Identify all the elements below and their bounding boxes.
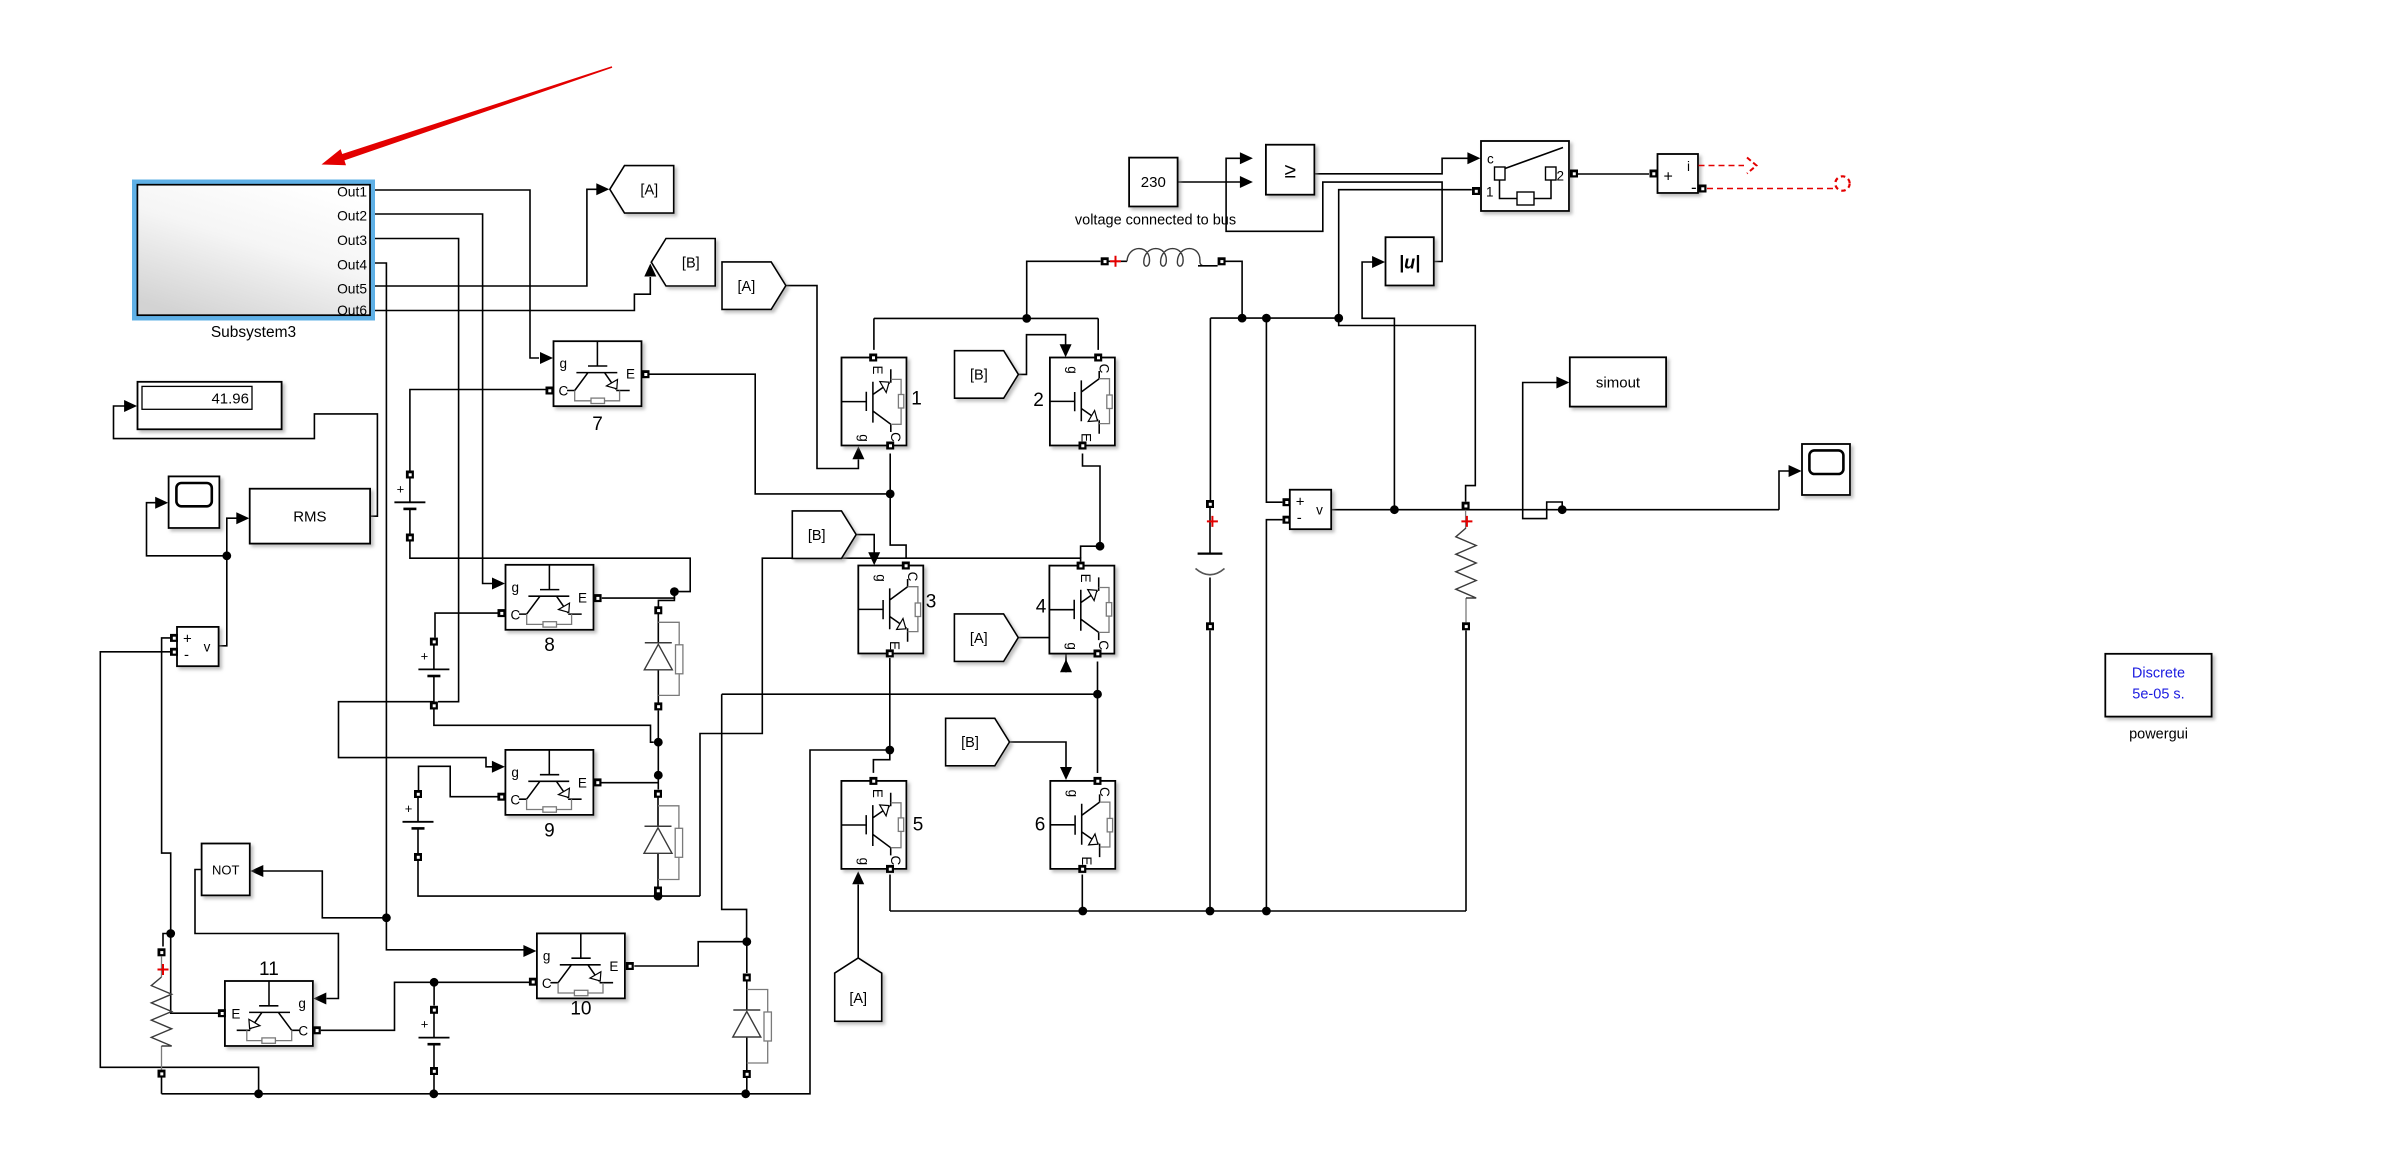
wire inductor L1 right terminal to DC bus [1222, 261, 1243, 318]
wire switch output to current measurement input [1578, 173, 1649, 175]
svg-text:C: C [510, 792, 520, 807]
annotation red arrow [322, 66, 613, 165]
svg-text:1: 1 [1486, 185, 1494, 200]
svg-text:+: + [183, 631, 192, 648]
svg-text:powergui: powergui [2129, 727, 2188, 743]
svg-text:[A]: [A] [970, 631, 988, 647]
svg-text:E: E [870, 789, 885, 798]
wire bridge output bus [874, 318, 1098, 350]
svg-text:C: C [542, 976, 552, 991]
svg-text:C: C [559, 384, 569, 399]
svg-text:|u|: |u| [1399, 253, 1420, 273]
svg-text:Out3: Out3 [337, 233, 367, 248]
wire constant 230 to relational operator bottom input [1178, 181, 1241, 183]
svg-text:Discrete: Discrete [2132, 666, 2185, 682]
wire From B to gate of IGBT 2 [1018, 335, 1065, 375]
DC source B2 [433, 642, 435, 706]
wire Abs output to relational operator top input [1226, 158, 1442, 261]
wire collector of IGBT 11 to node [321, 982, 434, 1030]
svg-text:Out4: Out4 [337, 257, 367, 272]
svg-text:7: 7 [592, 414, 603, 435]
wire C4 C6 feed line to diode D3 node [722, 694, 1098, 938]
wire emitter of IGBT 2 jog to node [1083, 454, 1101, 547]
wire emitter of IGBT 6 to mid rail [1081, 875, 1083, 912]
block NOT [202, 844, 250, 896]
wire Out3 down to battery B2 minus [370, 239, 459, 702]
IGBT 2 [1050, 358, 1115, 446]
wire battery B4 plus to node [433, 982, 435, 1005]
svg-text:4: 4 [1036, 597, 1047, 618]
svg-text:RMS: RMS [293, 509, 326, 526]
svg-text:230: 230 [1141, 174, 1166, 191]
svg-text:E: E [1079, 856, 1094, 865]
wire From A to gate of IGBT 4 [1018, 638, 1066, 673]
svg-text:g: g [1065, 366, 1080, 374]
wire emitter of IGBT 7 to node A1 [650, 374, 891, 494]
svg-text:g: g [1065, 790, 1080, 798]
wire junction to left resistor R1 top and emitter of IGBT 11 [163, 934, 218, 1014]
resistor R2 load [1465, 510, 1467, 623]
wire left resistor R1 bottom to bottom rail [161, 1078, 163, 1094]
voltage measurement V2 [1290, 490, 1331, 530]
svg-text:C: C [1097, 787, 1112, 797]
capacitor C1 [1209, 504, 1211, 626]
switch block [1481, 141, 1569, 211]
wire collector of IGBT 10 feed [434, 981, 529, 983]
svg-text:C: C [905, 572, 920, 582]
svg-text:E: E [1078, 433, 1093, 442]
from tag B to IGBT3 gate [792, 511, 856, 559]
wire Out4 trunk [370, 263, 386, 918]
svg-text:E: E [626, 367, 635, 382]
wire battery B1 plus to collector of IGBT 7 [410, 390, 546, 472]
from tag B to IGBT6 gate [946, 718, 1010, 766]
svg-text:c: c [1487, 152, 1494, 167]
wire node A1 to collector of IGBT 3 [890, 494, 906, 558]
wire junction to RMS input [227, 518, 237, 556]
IGBT 8 [506, 565, 594, 630]
svg-text:C: C [888, 856, 903, 866]
wire diode D3 node vertical [746, 942, 748, 973]
svg-text:-: - [1297, 510, 1302, 527]
svg-text:v: v [1316, 503, 1323, 518]
svg-text:g: g [560, 356, 568, 371]
wire battery B3 minus to diode D2 cathode rail [418, 861, 700, 896]
wire emitter of IGBT 9 to node [598, 782, 659, 784]
wire battery B2 minus to gate of IGBT 9 [339, 702, 493, 767]
scope Scope2 [1802, 444, 1850, 495]
svg-text:8: 8 [544, 635, 555, 656]
svg-text:g: g [298, 996, 306, 1011]
wire battery B1 minus to diode D1 node [410, 542, 690, 592]
wire mid rail [890, 910, 1466, 912]
wire C4 feed vertical to collector of IGBT 4 and collector of IGBT 6 [1097, 662, 1099, 774]
DC source B3 [417, 794, 419, 857]
IGBT 3 [858, 566, 923, 654]
wire node Out4 to gate of IGBT 10 [386, 918, 524, 950]
svg-text:Out1: Out1 [337, 184, 367, 199]
svg-text:+: + [1664, 169, 1673, 186]
svg-text:C: C [1096, 640, 1111, 650]
red dashed current output arrow [1699, 165, 1745, 167]
wire DC bus rail [1210, 317, 1338, 319]
wire voltage measurement V1 output to junction [219, 556, 227, 646]
svg-text:Out2: Out2 [337, 208, 367, 223]
IGBT 7 [554, 341, 642, 406]
svg-text:1: 1 [911, 389, 922, 410]
current measurement block [1658, 154, 1699, 193]
svg-text:E: E [231, 1007, 240, 1022]
svg-text:[B]: [B] [808, 528, 826, 544]
IGBT 11 [225, 981, 313, 1046]
svg-text:g: g [511, 765, 519, 780]
wire battery B2 minus to diode D1 anode node [434, 709, 654, 742]
svg-text:E: E [578, 590, 587, 605]
IGBT conserving ports [546, 387, 554, 395]
wire node Out4 to NOT input [263, 871, 386, 918]
svg-text:Subsystem3: Subsystem3 [211, 324, 296, 341]
svg-text:C: C [888, 432, 903, 442]
wire node to diode D1 cathode [658, 592, 674, 607]
svg-text:-: - [184, 647, 189, 664]
svg-text:+: + [405, 801, 413, 816]
svg-text:10: 10 [570, 999, 591, 1020]
svg-text:v: v [204, 640, 211, 655]
svg-text:5e-05 s.: 5e-05 s. [2132, 687, 2184, 703]
block simout [1570, 357, 1666, 406]
IGBT 4 [1049, 566, 1114, 654]
from tag B to IGBT2 gate [955, 351, 1019, 399]
wire Out1 to gate of IGBT 7 [370, 190, 539, 358]
svg-text:6: 6 [1035, 815, 1046, 836]
wire output line to simout [1523, 383, 1563, 519]
wire voltage measurement V2 output line [1331, 509, 1779, 511]
svg-text:NOT: NOT [212, 863, 240, 878]
svg-text:C: C [1096, 364, 1111, 374]
wire From A to gate of IGBT 1 [786, 286, 859, 469]
wire voltage measurement V1 minus input [100, 652, 258, 1094]
IGBT 10 [537, 933, 625, 998]
svg-text:g: g [543, 948, 551, 963]
from tag A to IGBT1 gate [722, 262, 786, 310]
IGBT 5 [841, 781, 906, 869]
wire Out5 to Goto A [370, 189, 597, 286]
wire emitter of IGBT 10 to diode D3 node [634, 942, 747, 966]
wire relational operator output to switch control input [1314, 158, 1468, 174]
wire node to emitter of IGBT 4 [1081, 546, 1100, 558]
svg-text:Out5: Out5 [337, 281, 367, 296]
wire DC bus to capacitor C1 top [1209, 318, 1211, 500]
svg-text:[B]: [B] [970, 368, 988, 384]
svg-text:41.96: 41.96 [211, 391, 249, 408]
IGBT 9 [505, 750, 593, 815]
wire emitter rail of IGBT 4 down to diode D2 rail [700, 558, 1081, 896]
svg-text:E: E [578, 775, 587, 790]
svg-text:C: C [298, 1024, 308, 1039]
wire node A1 to collector of IGBT 1 [889, 454, 891, 494]
IGBT 6 [1050, 781, 1115, 869]
wire emitter of IGBT 8 to node [602, 592, 675, 599]
IGBT 1 [842, 358, 907, 446]
wire From B to gate of IGBT 6 [1010, 742, 1067, 768]
wire bottom rail [162, 750, 891, 1094]
wire voltage measurement V1 plus input [162, 638, 171, 934]
svg-text:+: + [1296, 494, 1305, 511]
wire emitter of IGBT 3 to emitter of IGBT 5 [873, 658, 889, 773]
svg-text:E: E [609, 959, 618, 974]
wire Out2 to gate of IGBT 8 [370, 214, 493, 584]
svg-text:E: E [887, 641, 902, 650]
svg-text:g: g [857, 434, 872, 442]
svg-text:≥: ≥ [1284, 160, 1296, 183]
diode D1 with parallel resistor [657, 610, 659, 706]
display block 41.96 [138, 382, 282, 430]
wire DC bus to load resistor R2 top [1339, 318, 1476, 502]
svg-text:3: 3 [926, 592, 937, 613]
svg-text:C: C [511, 607, 521, 622]
constant 230 [1129, 158, 1178, 207]
wire bus to inductor L1 left terminal [1027, 261, 1101, 318]
svg-text:voltage connected to bus: voltage connected to bus [1075, 213, 1236, 229]
wire diode D3 anode to bottom rail [746, 1078, 748, 1094]
goto tag A [610, 166, 674, 214]
DC source B4 [433, 1010, 435, 1071]
svg-text:simout: simout [1596, 375, 1641, 392]
red dashed minus output with circle [1707, 188, 1833, 190]
resistor R1 left [161, 957, 163, 1070]
svg-text:-: - [1691, 178, 1697, 197]
wire RMS output to Display input [114, 406, 378, 516]
wire voltage measurement V2 minus to bottom rail [1266, 520, 1282, 911]
wire junction dots [670, 587, 679, 596]
svg-text:9: 9 [544, 821, 555, 842]
svg-text:2: 2 [1033, 390, 1044, 411]
svg-text:g: g [856, 858, 871, 866]
wire capacitor C1 bottom to mid rail [1209, 631, 1211, 912]
wire battery B4 minus to bottom rail [433, 1075, 435, 1094]
voltage measurement V1 [177, 627, 219, 666]
wire junction to Scope1 input [147, 503, 227, 556]
wire NOT output to gate of IGBT 11 [195, 870, 338, 999]
wire load resistor R2 bottom to mid rail [1465, 631, 1467, 912]
relational operator GE [1266, 145, 1315, 195]
svg-text:+: + [421, 648, 429, 663]
goto tag B [651, 239, 715, 287]
svg-text:E: E [870, 365, 885, 374]
wire diode D1 anode chain [657, 711, 659, 790]
svg-text:5: 5 [913, 815, 924, 836]
svg-text:[A]: [A] [640, 183, 658, 199]
svg-text:[B]: [B] [961, 735, 979, 751]
wire From B to gate of IGBT 3 [856, 535, 874, 554]
svg-text:Out6: Out6 [337, 303, 367, 318]
svg-text:i: i [1687, 159, 1690, 174]
svg-text:+: + [421, 1017, 429, 1032]
DC source B1 [409, 475, 411, 538]
svg-text:2: 2 [1557, 169, 1565, 184]
powergui block [2105, 654, 2211, 717]
subsystem Subsystem3 [132, 180, 375, 321]
wire collector of IGBT 9 to battery B3 plus [419, 766, 499, 796]
wire DC bus to voltage measurement V2 plus [1266, 318, 1282, 502]
svg-text:g: g [1064, 642, 1079, 650]
wire collector of IGBT 5 to mid rail [889, 875, 891, 912]
wire DC bus to switch terminal 1 [1339, 190, 1472, 318]
wire Out6 to Goto B [370, 277, 650, 311]
scope Scope1 [169, 476, 220, 528]
svg-text:g: g [873, 574, 888, 582]
from tag A to IGBT5 gate [835, 958, 882, 1021]
wire output line to Abs input [1362, 262, 1394, 510]
diode D3 with parallel resistor [746, 978, 748, 1075]
svg-text:11: 11 [259, 959, 279, 980]
from tag A to IGBT4 gate [954, 614, 1018, 662]
wire collector of IGBT 8 to battery B2 plus [435, 613, 498, 637]
wire From A up to gate of IGBT 5 [857, 885, 859, 958]
svg-text:[A]: [A] [738, 279, 756, 295]
svg-text:[B]: [B] [682, 255, 700, 271]
inductor L1 [1109, 260, 1128, 262]
svg-text:g: g [512, 580, 520, 595]
svg-text:E: E [1078, 574, 1093, 583]
diode D2 with parallel resistor [657, 794, 659, 891]
wire output line to Scope2 [1779, 471, 1789, 510]
svg-text:+: + [397, 481, 405, 496]
block RMS [250, 489, 370, 544]
abs block |u| [1386, 237, 1434, 285]
svg-text:[A]: [A] [849, 991, 867, 1007]
